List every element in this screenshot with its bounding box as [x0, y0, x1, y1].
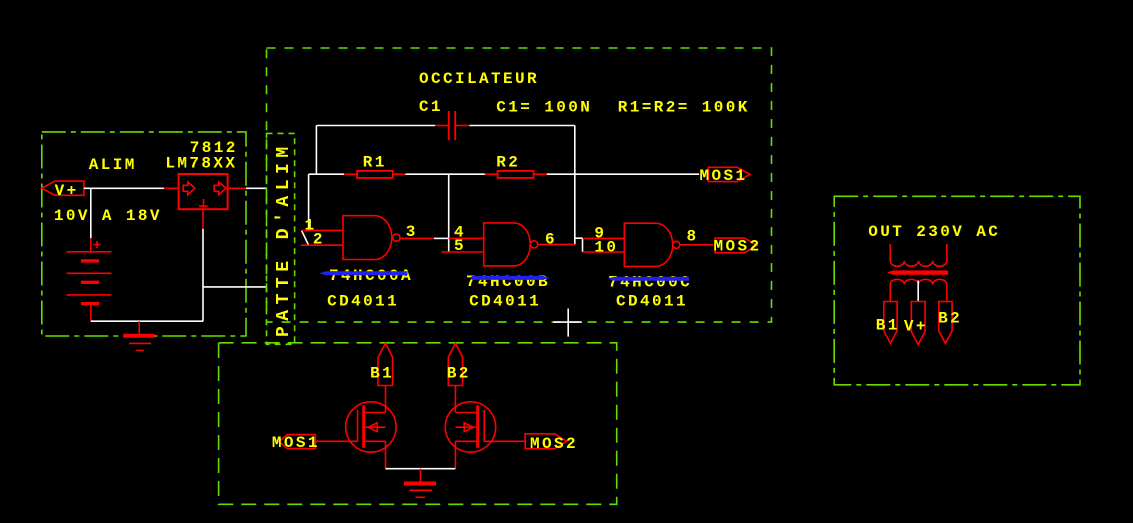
pin 1 [302, 229, 343, 231]
block border OUT 230V AC [834, 196, 1080, 384]
svg-text:V+: V+ [904, 318, 928, 336]
pin 9 [583, 237, 625, 239]
svg-text:B2: B2 [447, 365, 471, 383]
wire Q2 gate to MOS2 [484, 440, 525, 442]
svg-text:R1=R2= 100K: R1=R2= 100K [618, 99, 750, 117]
block border PATTE D'ALIM [267, 133, 295, 344]
svg-text:MOS2: MOS2 [530, 435, 578, 453]
svg-text:ALIM: ALIM [89, 156, 137, 174]
svg-text:CD4011: CD4011 [616, 293, 688, 311]
gate A bubble [393, 234, 400, 241]
mosfet Q1 [346, 402, 396, 469]
pin 5 [441, 251, 483, 253]
svg-text:OUT 230V AC: OUT 230V AC [868, 223, 1000, 241]
svg-text:10: 10 [594, 239, 618, 257]
svg-text:74HC00A: 74HC00A [329, 267, 413, 285]
connector V+ [42, 181, 84, 195]
resistor R2 [485, 171, 547, 178]
sheet cross marker [553, 309, 581, 337]
svg-text:5: 5 [454, 237, 466, 255]
svg-text:CD4011: CD4011 [469, 293, 541, 311]
wire gateB out to gateC in [575, 238, 583, 252]
strike C [608, 277, 690, 281]
wire pin3 to pin4 [434, 237, 449, 239]
mosfet Q2 [445, 402, 495, 469]
svg-text:B1: B1 [370, 365, 394, 383]
svg-text:PATTE D'ALIM: PATTE D'ALIM [274, 141, 294, 337]
resistor R1 [344, 171, 406, 178]
pin 8 [680, 244, 713, 246]
svg-text:MOS1: MOS1 [700, 167, 748, 185]
connector B2 down [939, 302, 952, 344]
ground symbol MOSFET stage [404, 484, 436, 498]
pin 4 [449, 237, 484, 239]
regulator arrow right [214, 182, 226, 195]
connector MOS2 out [715, 238, 757, 253]
svg-text:6: 6 [545, 231, 557, 249]
regulator arrow left [183, 182, 195, 195]
connector B2 up [448, 343, 462, 385]
wire MOS1 to Q1 gate [315, 440, 357, 442]
connector MOS1 in [279, 435, 315, 449]
transformer T1 secondary [890, 279, 947, 301]
gate C bubble [673, 241, 680, 248]
svg-text:B1: B1 [876, 317, 900, 335]
wire B1 to Q1 drain [385, 386, 387, 413]
svg-text:10V A 18V: 10V A 18V [54, 207, 162, 225]
wire resistor row [309, 173, 699, 175]
pin 6 [538, 243, 575, 245]
wire battery tap [90, 188, 92, 238]
svg-text:MOS2: MOS2 [714, 238, 762, 256]
svg-text:MOS1: MOS1 [272, 434, 320, 452]
pin 10 [583, 251, 625, 253]
strike B [472, 276, 551, 280]
transformer T1 core [887, 270, 948, 274]
svg-text:B2: B2 [938, 310, 962, 328]
connector B1 up [378, 343, 393, 385]
wire C1 top [316, 126, 574, 245]
regulator gnd mark [199, 199, 208, 206]
connector MOS1 out [708, 167, 750, 181]
wire R midpoint down [448, 174, 450, 252]
nand gate U1B [484, 223, 531, 266]
transformer T1 primary [890, 244, 947, 266]
battery plus sign [94, 241, 101, 248]
battery BT1 plates [67, 252, 112, 304]
svg-text:3: 3 [406, 223, 418, 241]
pin 3 [400, 237, 434, 239]
svg-text:LM78XX: LM78XX [165, 155, 237, 173]
regulator U1 LM78XX body [179, 174, 228, 209]
connector V+ down [911, 302, 925, 345]
connector MOS2 in [525, 434, 566, 449]
svg-text:R1: R1 [363, 154, 387, 172]
ground lead [420, 469, 422, 482]
wire source bus [386, 468, 456, 470]
svg-text:8: 8 [687, 227, 699, 245]
pin wire regulator input [164, 187, 179, 189]
wire ground bus [91, 229, 266, 322]
wire center tap [917, 281, 919, 302]
connector B1 down [884, 302, 897, 344]
nand gate U1C [624, 223, 672, 266]
ground symbol ALIM [123, 321, 154, 350]
battery bottom lead [90, 304, 92, 322]
svg-text:74HC00C: 74HC00C [608, 274, 692, 292]
svg-text:V+: V+ [55, 182, 79, 200]
wire B2 to Q2 drain [454, 386, 456, 413]
svg-text:2: 2 [313, 231, 325, 249]
svg-text:74HC00B: 74HC00B [466, 273, 550, 291]
svg-text:OCCILATEUR: OCCILATEUR [419, 70, 539, 88]
nand gate U1A [343, 216, 392, 260]
wire V+ to regulator [84, 187, 164, 189]
capacitor C1 [435, 111, 469, 140]
block border ALIM [42, 132, 246, 336]
block border MOSFET stage [219, 343, 617, 505]
battery BT1 top lead [90, 238, 92, 252]
wire stub to patte [246, 187, 266, 189]
pin 2 [301, 244, 343, 246]
strike A [319, 271, 408, 275]
svg-text:R2: R2 [496, 154, 520, 172]
block border OCCILATEUR [267, 48, 772, 322]
svg-text:CD4011: CD4011 [327, 293, 399, 311]
gate B bubble [531, 241, 538, 248]
svg-text:C1= 100N: C1= 100N [496, 99, 592, 117]
pin wire regulator output [228, 187, 246, 189]
wire into gate A pin1 [302, 174, 309, 245]
svg-text:C1: C1 [419, 98, 443, 116]
pin wire regulator gnd [202, 209, 204, 229]
